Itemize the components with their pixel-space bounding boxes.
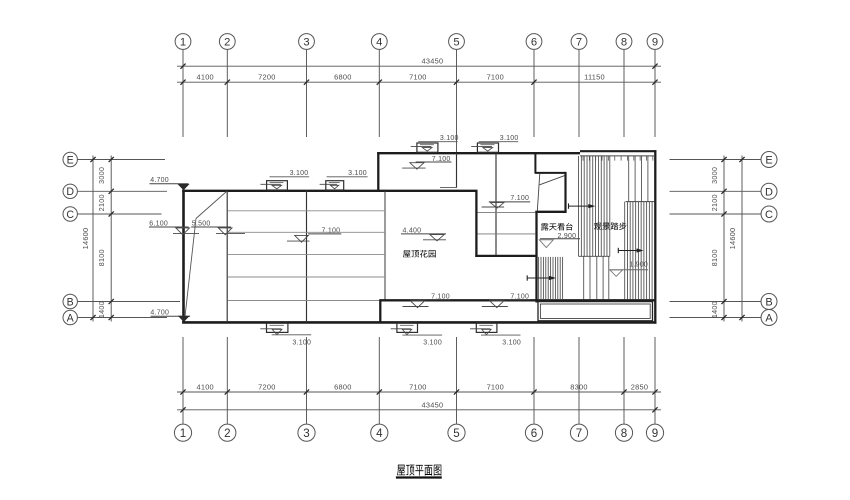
- svg-text:8100: 8100: [97, 249, 106, 266]
- viewing steps east flight: [625, 202, 652, 300]
- grid bubble E left: [63, 152, 77, 166]
- svg-text:4100: 4100: [196, 73, 213, 82]
- level 7.100 upper block: [402, 156, 451, 169]
- grid bubble B left: [63, 294, 77, 308]
- svg-text:11150: 11150: [584, 73, 605, 82]
- ramp diagonal lower: [185, 219, 197, 322]
- svg-text:6: 6: [531, 37, 537, 49]
- svg-text:8100: 8100: [710, 249, 719, 266]
- svg-text:C: C: [66, 209, 74, 221]
- grid line B right stub: [670, 301, 761, 303]
- grid bubble 2 top: [219, 34, 235, 50]
- dimension line bottom segments: [177, 382, 661, 394]
- grid line 3 top: [306, 50, 308, 137]
- svg-text:6800: 6800: [334, 73, 351, 82]
- svg-text:1: 1: [180, 427, 186, 440]
- grid bubble 8 bottom: [615, 424, 632, 441]
- grid bubble 5 top: [449, 34, 465, 50]
- svg-text:3: 3: [303, 427, 309, 440]
- svg-text:2100: 2100: [97, 194, 106, 211]
- grid line 7 top: [578, 50, 580, 137]
- svg-text:6800: 6800: [334, 382, 351, 391]
- wall terrace top hatched edge: [580, 151, 656, 160]
- grid bubble 8 top: [616, 34, 632, 50]
- grid bubble 9 top: [647, 34, 663, 50]
- svg-text:1.900: 1.900: [629, 262, 648, 269]
- svg-text:4100: 4100: [196, 382, 213, 391]
- text open-air stand: [541, 223, 573, 231]
- wall stair-well west: [475, 191, 477, 257]
- grid bubble 1 top: [175, 34, 191, 50]
- viewing steps west flight: [579, 156, 610, 256]
- wall grid-5 stub in block: [456, 153, 458, 187]
- rooftop vent 5: [260, 323, 288, 335]
- text viewing steps: [594, 222, 627, 230]
- level 1.900 steps: [609, 262, 648, 277]
- vent 2 label 3.100: [327, 170, 368, 177]
- wall roof edge D-line: [182, 190, 477, 192]
- svg-text:1: 1: [180, 37, 186, 49]
- svg-text:A: A: [67, 312, 75, 324]
- level 4.400 roof garden: [401, 228, 446, 241]
- grid line 9 bottom: [654, 337, 656, 424]
- svg-text:14600: 14600: [81, 228, 90, 250]
- svg-text:7: 7: [576, 427, 582, 440]
- svg-text:7.100: 7.100: [510, 195, 529, 202]
- wall stair-well south: [475, 255, 537, 257]
- grid bubble B right: [761, 294, 777, 310]
- grid bubble 2 bottom: [219, 424, 236, 441]
- grid line D left stub: [78, 190, 167, 192]
- grid bubble 7 top: [571, 34, 587, 50]
- level 4.700 bottom-left: [150, 310, 190, 322]
- viewing steps small flight: [539, 257, 563, 300]
- grid line 4 bottom: [378, 337, 380, 424]
- wall south band top: [380, 299, 654, 301]
- svg-text:4.700: 4.700: [150, 310, 169, 317]
- grid bubble A left: [63, 310, 77, 324]
- level 7.100 south band west: [403, 293, 451, 307]
- grid line 5 bottom: [456, 337, 458, 424]
- svg-text:3.100: 3.100: [290, 170, 309, 177]
- grid line 9 top: [654, 50, 656, 137]
- grid line B left stub: [78, 301, 180, 303]
- svg-text:8300: 8300: [570, 382, 587, 391]
- skylight opening with diagonal: [535, 172, 567, 213]
- svg-text:2850: 2850: [631, 382, 648, 391]
- dimension line right overall 14600: [728, 156, 745, 322]
- svg-text:4: 4: [376, 37, 382, 49]
- svg-text:7100: 7100: [487, 73, 504, 82]
- svg-text:D: D: [66, 186, 74, 198]
- svg-text:5: 5: [453, 427, 459, 440]
- arrow east flight: [618, 248, 643, 253]
- rooftop vent 3: [411, 143, 438, 152]
- vent 1 label 3.100: [270, 170, 310, 177]
- wall south band west: [379, 299, 381, 322]
- arrow small flight: [527, 275, 556, 280]
- dimension line left segments: [97, 156, 114, 322]
- grid line 1 top: [182, 50, 184, 137]
- grid line 3 bottom: [306, 337, 308, 424]
- stair-well tread line 1: [478, 211, 536, 213]
- level 7.100 stair-well: [482, 195, 531, 208]
- grid line A right stub: [670, 317, 761, 319]
- wall right exterior: [654, 150, 656, 323]
- wall grid-3 partition: [306, 191, 308, 323]
- svg-text:3.100: 3.100: [440, 135, 459, 142]
- grid bubble E right: [761, 152, 777, 168]
- grid line 2 top: [226, 50, 228, 137]
- grid bubble D right: [761, 183, 777, 199]
- grid line 5 top: [456, 50, 458, 154]
- svg-text:5: 5: [453, 37, 459, 49]
- svg-text:C: C: [765, 209, 773, 221]
- grid bubble 6 top: [526, 34, 542, 50]
- wall block top: [377, 152, 580, 154]
- level 2.900 stand: [539, 233, 580, 248]
- east terrace upper rails: [629, 156, 648, 202]
- svg-text:3.100: 3.100: [502, 340, 521, 347]
- grid line 6 bottom: [533, 337, 535, 424]
- grid bubble C left: [63, 207, 77, 221]
- grid bubble 1 bottom: [174, 424, 191, 441]
- dimension line bottom overall 43450: [177, 400, 661, 412]
- grid bubble 7 bottom: [570, 424, 587, 441]
- svg-text:B: B: [67, 296, 74, 308]
- grid bubble 4 bottom: [371, 424, 388, 441]
- grid line D right stub: [670, 190, 761, 192]
- grid bubble 3 top: [299, 34, 315, 50]
- svg-text:9: 9: [652, 427, 658, 440]
- svg-text:2: 2: [224, 427, 230, 440]
- stair-well tread line 2: [478, 233, 536, 235]
- grid line 8 bottom: [623, 337, 625, 424]
- svg-text:3000: 3000: [97, 167, 106, 184]
- rooftop vent 1: [260, 181, 287, 190]
- svg-text:7100: 7100: [487, 382, 504, 391]
- svg-text:43450: 43450: [422, 400, 444, 409]
- rooftop vent 6: [391, 323, 418, 335]
- svg-text:6: 6: [531, 427, 537, 440]
- vent 6 label 3.100: [403, 335, 443, 347]
- roof plane joint stripes: [228, 211, 385, 301]
- text roof garden: [403, 250, 436, 258]
- svg-text:7200: 7200: [258, 382, 275, 391]
- svg-text:3000: 3000: [710, 167, 719, 184]
- svg-text:3.100: 3.100: [500, 135, 519, 142]
- grid bubble 4 top: [371, 34, 387, 50]
- grid line C right stub: [670, 213, 761, 215]
- svg-text:D: D: [765, 186, 773, 198]
- grid bubble 6 bottom: [525, 424, 542, 441]
- svg-text:1400: 1400: [97, 301, 106, 318]
- svg-text:7100: 7100: [409, 73, 426, 82]
- svg-text:E: E: [67, 154, 74, 166]
- title roof plan text: [397, 465, 441, 476]
- vent 4 label 3.100: [479, 135, 519, 142]
- arrow west flight: [569, 203, 596, 208]
- level 7.100 south band east: [482, 293, 530, 307]
- svg-text:3: 3: [303, 37, 309, 49]
- ramp diagonal upper: [196, 192, 227, 219]
- vent 7 label 3.100: [481, 335, 521, 347]
- rooftop vent 4: [471, 143, 498, 152]
- east flight top edge: [626, 201, 655, 203]
- grid bubble C right: [761, 206, 777, 222]
- svg-text:A: A: [765, 313, 773, 325]
- level 5.500: [191, 221, 245, 235]
- rooftop vent 7: [470, 323, 497, 335]
- grid line 8 top: [623, 50, 625, 137]
- grid bubble A right: [761, 310, 777, 326]
- grid line E right stub: [670, 159, 761, 161]
- grid line A left stub: [78, 317, 167, 319]
- svg-text:7100: 7100: [409, 382, 426, 391]
- dimension line left overall 14600: [81, 156, 96, 322]
- grid line 1 bottom: [182, 337, 184, 424]
- door line in block: [440, 187, 457, 189]
- dimension line right segments: [710, 156, 727, 322]
- svg-text:8: 8: [621, 37, 627, 49]
- level 6.100: [149, 221, 199, 235]
- svg-text:3.100: 3.100: [348, 170, 367, 177]
- svg-text:E: E: [765, 155, 772, 167]
- svg-text:2: 2: [224, 37, 230, 49]
- grid line 2 bottom: [226, 337, 228, 424]
- vent 5 label 3.100: [272, 335, 312, 347]
- level 4.700 top-left: [150, 177, 190, 190]
- vent 3 label 3.100: [418, 135, 458, 142]
- wall left exterior: [182, 190, 185, 324]
- svg-text:2100: 2100: [710, 194, 719, 211]
- viewing steps west flight lower rails: [584, 256, 609, 299]
- wall bottom exterior: [182, 321, 656, 324]
- grid bubble 3 bottom: [298, 424, 315, 441]
- wall grid-6 south segment: [535, 212, 537, 303]
- svg-text:3.100: 3.100: [423, 340, 442, 347]
- level 7.100 sloped roof: [287, 228, 341, 243]
- svg-text:7: 7: [576, 37, 582, 49]
- wall grid-2 partition: [226, 191, 228, 323]
- svg-text:9: 9: [652, 37, 658, 49]
- grid line 7 bottom: [578, 337, 580, 424]
- svg-text:7200: 7200: [258, 73, 275, 82]
- rooftop vent 2: [320, 181, 344, 190]
- grid bubble D left: [63, 184, 77, 198]
- svg-text:B: B: [765, 297, 772, 309]
- svg-text:4: 4: [376, 427, 383, 440]
- dimension line top segments: [177, 73, 661, 85]
- svg-text:14600: 14600: [728, 228, 737, 250]
- title underline: [396, 476, 442, 478]
- svg-text:43450: 43450: [422, 57, 444, 66]
- svg-text:8: 8: [621, 427, 627, 440]
- svg-text:3.100: 3.100: [292, 340, 311, 347]
- svg-text:4.700: 4.700: [150, 177, 169, 184]
- grid line 4 top: [378, 50, 380, 137]
- wall grid-56 mid partition: [495, 153, 497, 256]
- svg-text:1400: 1400: [710, 301, 719, 318]
- grid line 6 top: [533, 50, 535, 137]
- roof garden west edge: [384, 191, 386, 300]
- grid line E left stub: [78, 159, 165, 161]
- wall above skylight: [534, 152, 536, 173]
- grid bubble 9 bottom: [646, 424, 663, 441]
- planter box: [538, 302, 653, 321]
- grid line C left stub: [78, 213, 162, 215]
- grid bubble 5 bottom: [448, 424, 465, 441]
- dimension line top overall 43450: [177, 57, 661, 69]
- wall block left: [377, 152, 379, 192]
